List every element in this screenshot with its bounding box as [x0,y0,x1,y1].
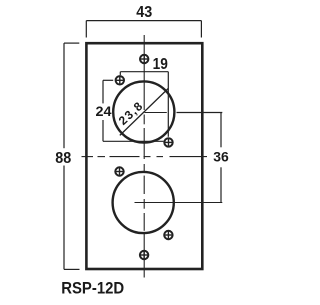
dimension 24 [96,80,164,141]
dimension 43 [86,4,201,38]
bottom hole h-centerline [135,202,223,204]
svg-text:36: 36 [213,148,229,164]
screw S2 top upper-left [116,76,124,84]
svg-text:24: 24 [96,103,112,119]
label 23,8 [116,98,146,127]
top hole circle [113,81,174,142]
top hole h-centerline [145,112,167,114]
screw S6 bottom center [140,251,148,259]
screw S5 bottom lower-right [164,231,172,239]
plate outline [86,43,202,269]
svg-text:23,8: 23,8 [116,98,146,127]
svg-text:RSP-12D: RSP-12D [61,280,124,298]
dimension 36 [177,113,229,203]
screw S1 top center [140,55,148,63]
top hole diagonal leader [120,89,168,136]
svg-text:43: 43 [136,4,152,21]
bottom hole circle [113,172,174,233]
screw S4 bottom upper-left [115,167,123,175]
dimension 19 [120,56,168,137]
dimension 88 [55,43,79,269]
screw S3 top lower-right [164,138,172,146]
vertical centerline [143,35,145,278]
svg-text:19: 19 [153,56,168,73]
svg-text:88: 88 [55,150,71,167]
mid horizontal centerline [82,156,208,158]
label RSP-12D [61,280,124,298]
